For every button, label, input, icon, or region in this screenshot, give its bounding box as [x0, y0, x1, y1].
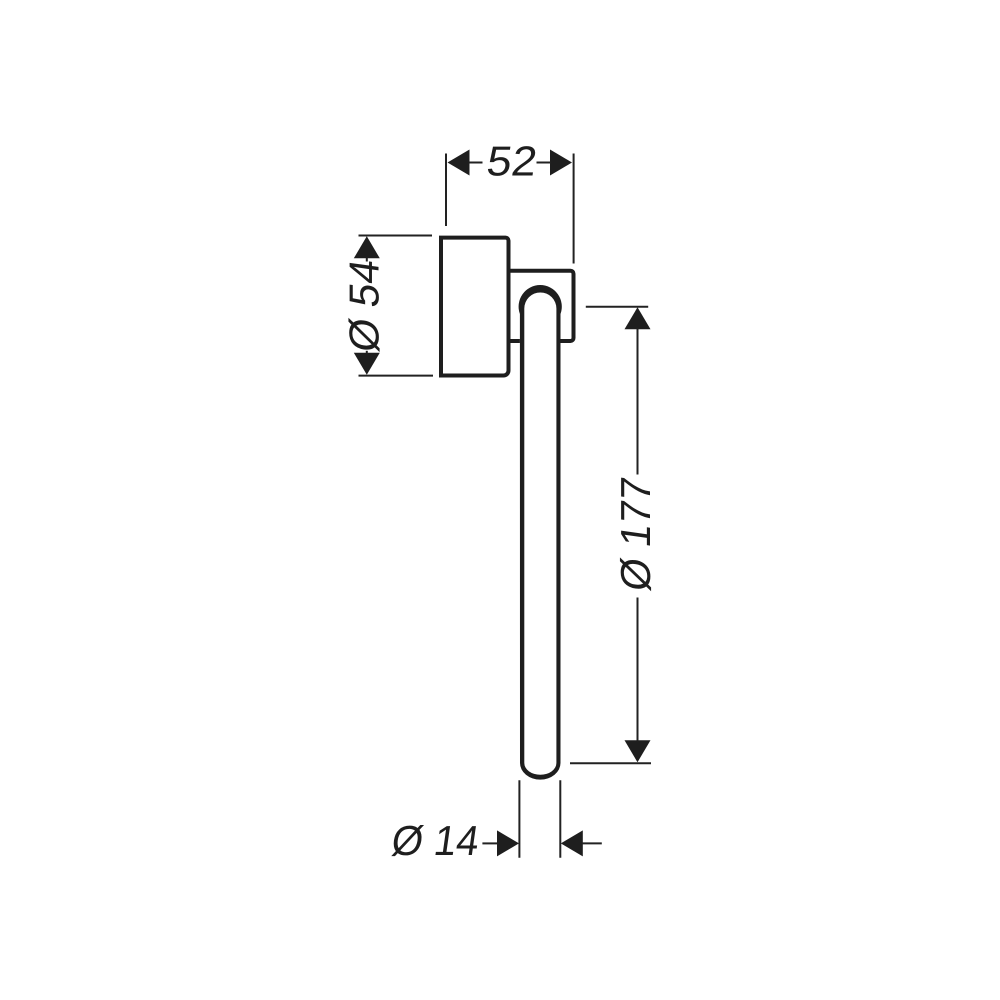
dimension D14: value label — [389, 817, 483, 864]
dimension 52: leader line right — [537, 162, 552, 164]
dimension 52: left arrow — [448, 150, 470, 176]
dimension D54: down arrow — [354, 353, 380, 375]
svg-text:52: 52 — [484, 138, 540, 185]
bracket arm — [510, 271, 574, 341]
dimension D177: up arrow — [625, 307, 651, 329]
dimension D177: upper dimension line — [637, 328, 639, 474]
dimension 52: value label — [484, 138, 540, 185]
dimension D14: left-pointing arrow — [561, 830, 583, 856]
dimension D14: leader line left — [482, 842, 498, 844]
dimension D14: leader line right — [582, 842, 602, 844]
dimension D14: left extension line — [518, 780, 520, 857]
dimension D54: lower stub line — [366, 351, 368, 354]
dimension 52: right arrow — [550, 150, 572, 176]
dimension D14: right extension line — [559, 780, 561, 857]
dimension D177: value label — [612, 474, 659, 594]
dimension D54: bottom extension line — [359, 375, 434, 377]
dimension 52: leader line left — [469, 162, 483, 164]
dimension D177: down arrow — [625, 740, 651, 762]
towel ring tube walls — [519, 285, 562, 780]
svg-text:Ø 14: Ø 14 — [389, 817, 483, 864]
dimension D54: up arrow — [354, 236, 380, 258]
dimension 52: right extension line — [573, 154, 575, 264]
dimension 52: left extension line — [445, 154, 447, 227]
wall plate (side view) — [441, 238, 509, 376]
svg-text:Ø 177: Ø 177 — [612, 474, 659, 594]
dimension D177: lower dimension line — [637, 598, 639, 742]
dimension D54: top extension line — [359, 235, 433, 237]
dimension D14: right-pointing arrow — [497, 830, 519, 856]
dimension D54: upper stub line — [366, 257, 368, 261]
dimension D177: top extension line — [586, 306, 648, 308]
dimension D54: value label — [341, 256, 388, 355]
dimension D177: bottom extension line — [570, 762, 651, 764]
towel ring (edge view, white core) — [519, 285, 562, 780]
svg-text:Ø 54: Ø 54 — [341, 256, 388, 355]
